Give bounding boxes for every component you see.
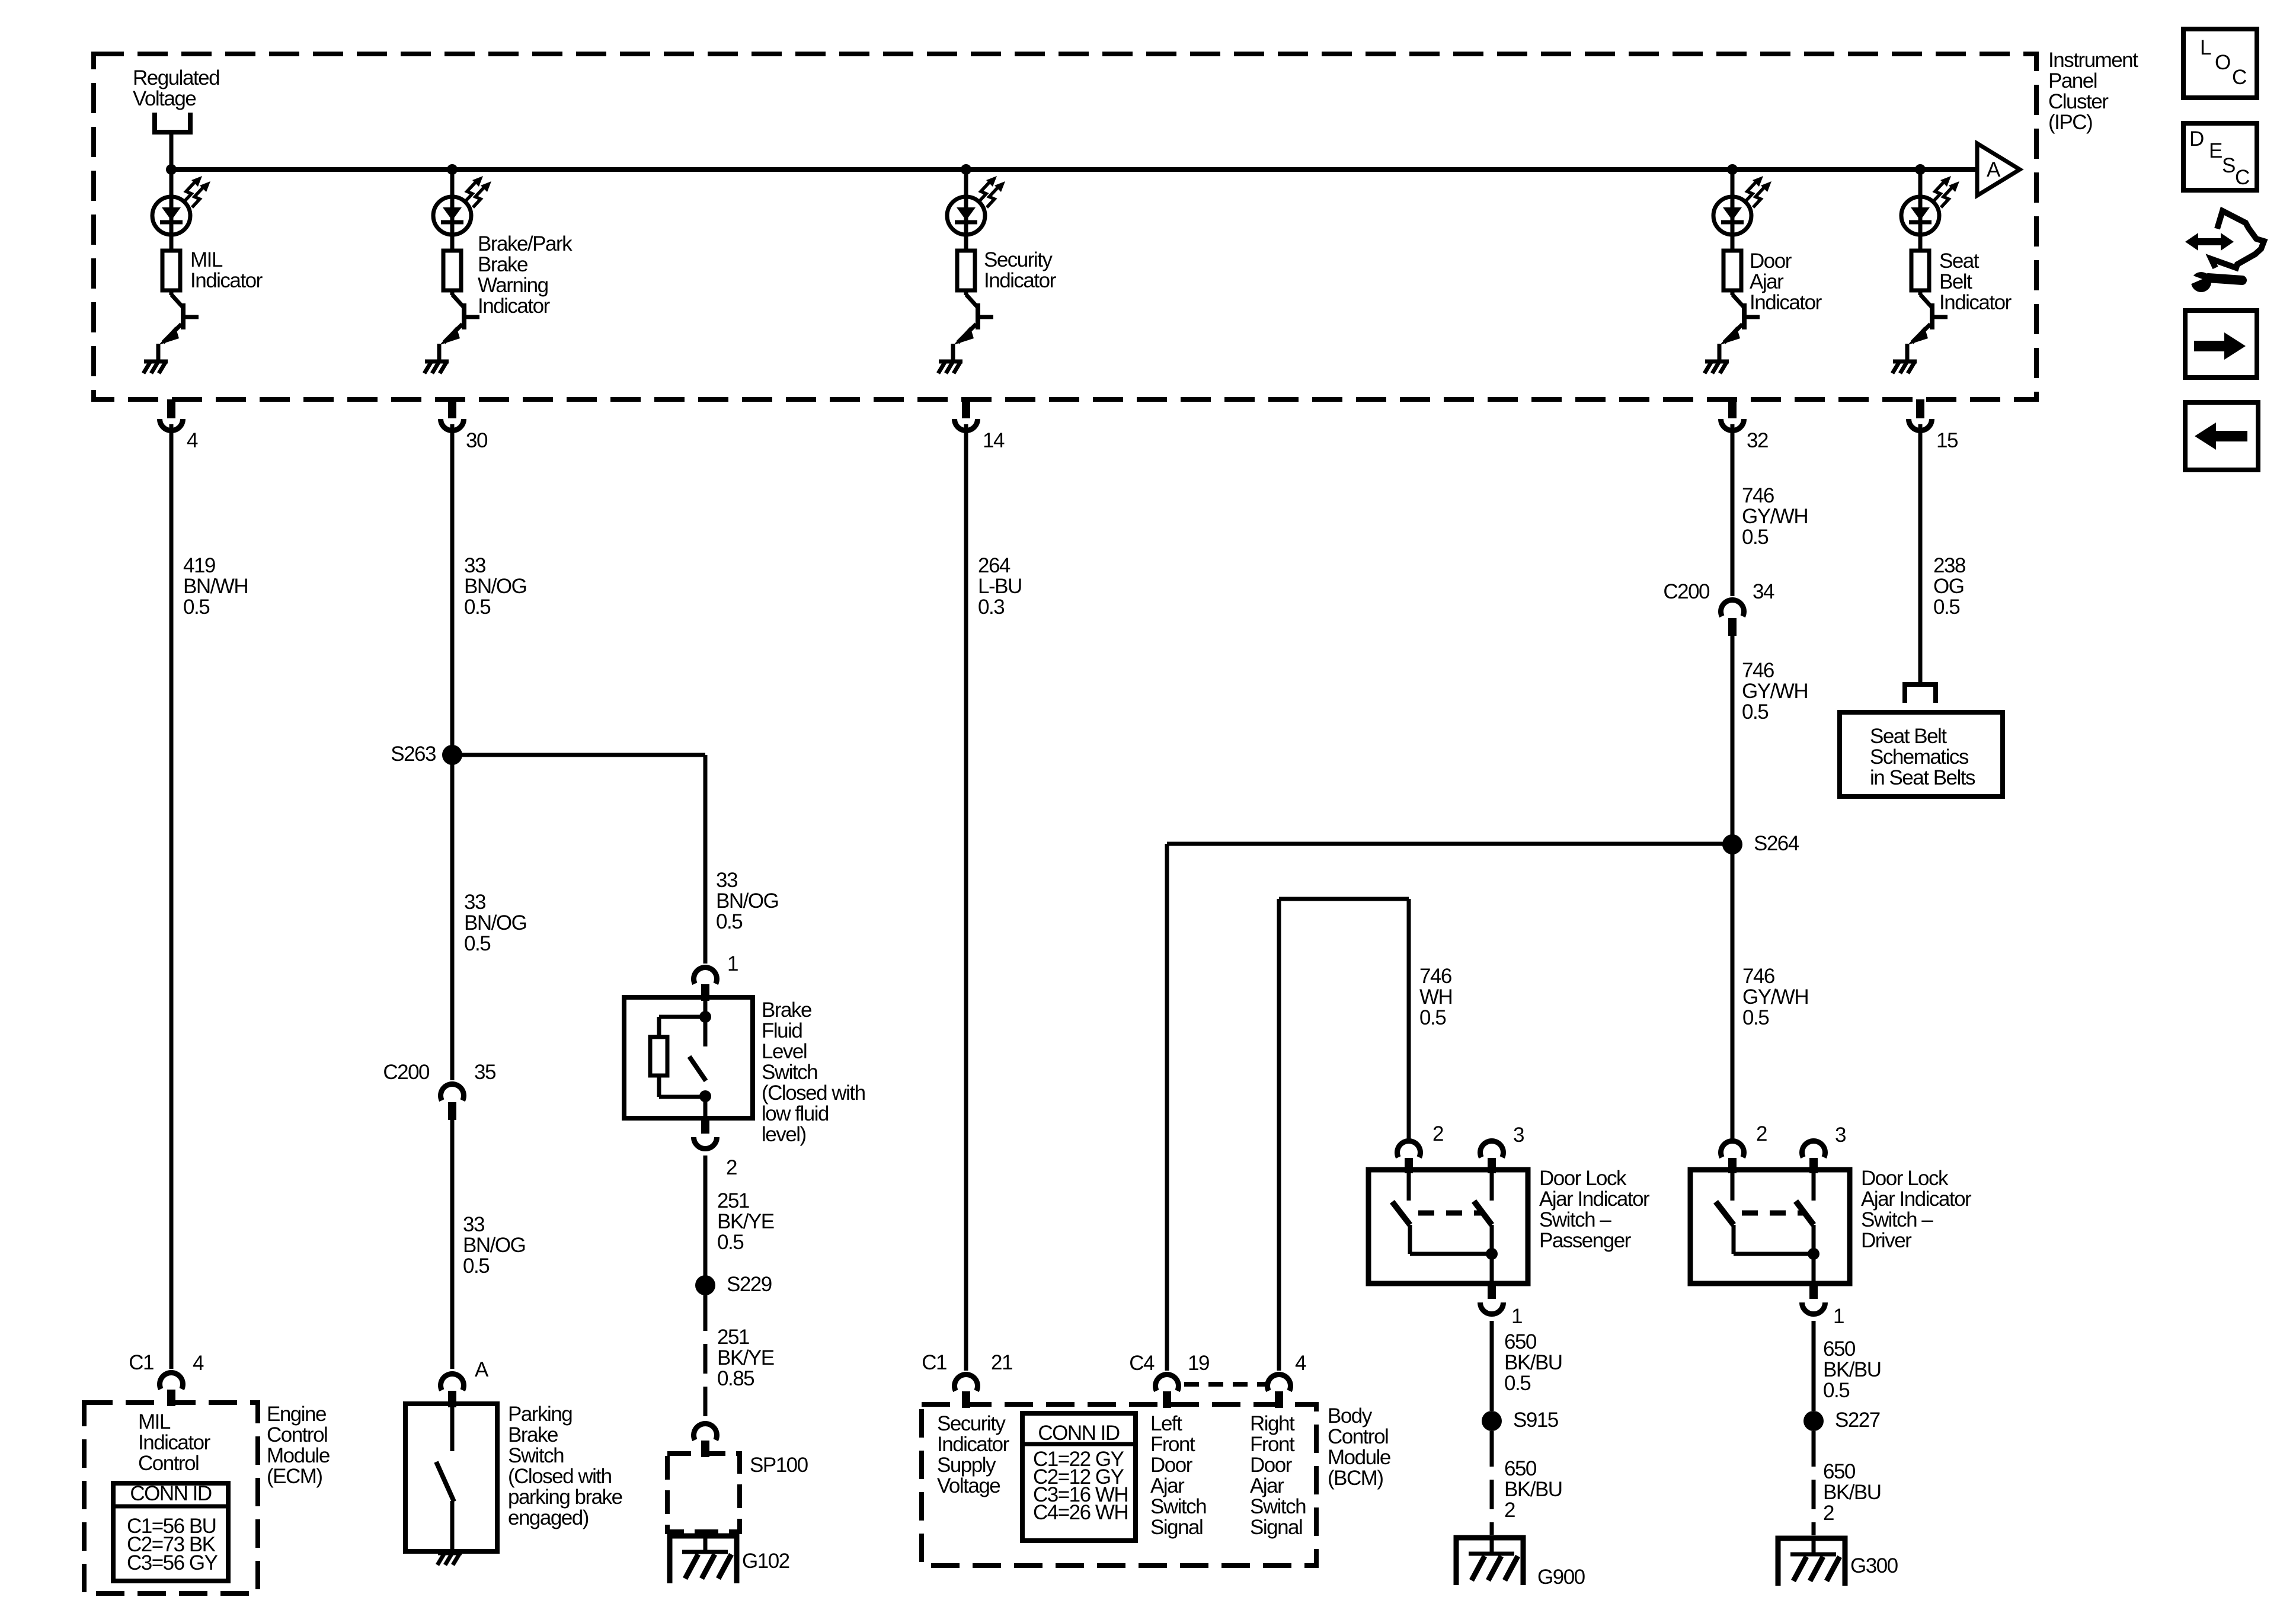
svg-text:0.3: 0.3: [978, 596, 1004, 619]
svg-text:33: 33: [463, 1213, 484, 1236]
svg-text:0.5: 0.5: [464, 596, 490, 619]
svg-text:in Seat Belts: in Seat Belts: [1870, 766, 1975, 789]
svg-text:Indicator: Indicator: [1939, 291, 2012, 314]
svg-text:Control: Control: [138, 1452, 199, 1475]
svg-text:251: 251: [717, 1326, 749, 1349]
svg-text:Ajar: Ajar: [1150, 1474, 1185, 1497]
svg-text:S263: S263: [391, 742, 436, 766]
svg-text:Module: Module: [1328, 1446, 1390, 1469]
svg-text:Signal: Signal: [1250, 1516, 1302, 1539]
svg-text:Schematics: Schematics: [1870, 745, 1969, 769]
svg-text:D: D: [2189, 127, 2204, 151]
svg-text:Switch: Switch: [1150, 1495, 1206, 1518]
svg-text:Ajar Indicator: Ajar Indicator: [1861, 1188, 1972, 1211]
svg-text:0.5: 0.5: [183, 596, 209, 619]
svg-text:650: 650: [1504, 1457, 1537, 1480]
svg-text:engaged): engaged): [508, 1506, 589, 1529]
svg-text:2: 2: [726, 1156, 737, 1179]
svg-text:33: 33: [464, 554, 485, 577]
svg-text:21: 21: [991, 1351, 1012, 1374]
svg-text:Brake: Brake: [762, 998, 811, 1022]
svg-text:Switch: Switch: [1250, 1495, 1306, 1518]
svg-text:C1: C1: [129, 1351, 154, 1374]
svg-text:BK/BU: BK/BU: [1504, 1351, 1562, 1374]
svg-text:G900: G900: [1537, 1566, 1585, 1589]
svg-text:3: 3: [1835, 1124, 1846, 1147]
svg-text:BK/YE: BK/YE: [717, 1210, 774, 1233]
svg-text:Passenger: Passenger: [1539, 1229, 1632, 1252]
svg-text:Ajar: Ajar: [1750, 270, 1784, 293]
svg-text:OG: OG: [1933, 575, 1964, 598]
svg-text:GY/WH: GY/WH: [1742, 505, 1808, 528]
svg-text:Brake: Brake: [508, 1423, 558, 1446]
svg-text:Ajar: Ajar: [1250, 1474, 1284, 1497]
svg-text:14: 14: [983, 429, 1005, 452]
svg-text:Door: Door: [1750, 249, 1792, 273]
svg-text:0.5: 0.5: [717, 1231, 743, 1254]
svg-text:Left: Left: [1150, 1412, 1182, 1435]
svg-text:Front: Front: [1250, 1433, 1295, 1456]
svg-text:E: E: [2209, 139, 2222, 162]
svg-text:C4: C4: [1129, 1352, 1155, 1375]
svg-text:Door: Door: [1250, 1454, 1293, 1477]
svg-text:33: 33: [716, 869, 737, 892]
svg-text:A: A: [475, 1358, 489, 1381]
svg-text:Switch: Switch: [762, 1061, 817, 1084]
svg-text:30: 30: [466, 429, 488, 452]
svg-text:(ECM): (ECM): [267, 1465, 322, 1488]
svg-text:0.5: 0.5: [1742, 1006, 1769, 1029]
svg-text:0.5: 0.5: [464, 932, 490, 955]
svg-text:35: 35: [474, 1061, 495, 1084]
svg-text:746: 746: [1742, 484, 1774, 507]
svg-text:C200: C200: [1663, 580, 1710, 603]
svg-text:Supply: Supply: [937, 1454, 996, 1477]
svg-text:1: 1: [1833, 1305, 1844, 1328]
svg-text:S227: S227: [1835, 1409, 1880, 1432]
svg-text:Indicator: Indicator: [937, 1433, 1010, 1456]
svg-text:Panel: Panel: [2048, 69, 2097, 92]
svg-text:Body: Body: [1328, 1404, 1373, 1427]
svg-text:Engine: Engine: [267, 1403, 326, 1426]
svg-text:Indicator: Indicator: [1750, 291, 1822, 314]
svg-text:33: 33: [464, 891, 485, 914]
svg-text:Switch –: Switch –: [1539, 1208, 1611, 1231]
svg-text:251: 251: [717, 1189, 749, 1212]
svg-text:Front: Front: [1150, 1433, 1195, 1456]
svg-text:CONN ID: CONN ID: [1038, 1422, 1120, 1445]
svg-text:4: 4: [187, 429, 198, 452]
svg-text:0.5: 0.5: [1742, 526, 1768, 549]
svg-text:0.5: 0.5: [1742, 700, 1768, 724]
svg-text:Warning: Warning: [478, 274, 548, 297]
svg-text:Fluid: Fluid: [762, 1019, 802, 1042]
svg-text:Switch –: Switch –: [1861, 1208, 1933, 1231]
svg-text:C1: C1: [922, 1351, 946, 1374]
svg-text:S229: S229: [727, 1273, 772, 1296]
svg-text:BN/OG: BN/OG: [716, 889, 778, 913]
svg-text:2: 2: [1756, 1122, 1767, 1145]
svg-text:34: 34: [1753, 580, 1774, 603]
svg-text:3: 3: [1513, 1124, 1524, 1147]
svg-text:G300: G300: [1850, 1554, 1898, 1577]
svg-text:Door: Door: [1150, 1454, 1193, 1477]
svg-text:parking brake: parking brake: [508, 1486, 622, 1509]
svg-text:Voltage: Voltage: [937, 1474, 1000, 1497]
svg-text:32: 32: [1747, 429, 1768, 452]
svg-text:C4=26 WH: C4=26 WH: [1033, 1501, 1128, 1524]
svg-text:Module: Module: [267, 1444, 330, 1467]
svg-text:A: A: [1987, 158, 2001, 181]
svg-text:C: C: [2232, 66, 2246, 89]
svg-text:4: 4: [1295, 1352, 1306, 1375]
svg-text:Right: Right: [1250, 1412, 1295, 1435]
svg-text:BK/BU: BK/BU: [1504, 1478, 1562, 1501]
svg-text:2: 2: [1432, 1122, 1443, 1145]
svg-text:Instrument: Instrument: [2048, 49, 2138, 72]
svg-text:0.5: 0.5: [1504, 1372, 1530, 1395]
svg-text:15: 15: [1936, 429, 1958, 452]
svg-text:746: 746: [1742, 659, 1774, 682]
svg-text:BN/OG: BN/OG: [463, 1234, 525, 1257]
svg-text:Voltage: Voltage: [133, 87, 196, 110]
svg-text:Door Lock: Door Lock: [1861, 1167, 1949, 1190]
svg-text:419: 419: [183, 554, 215, 577]
svg-text:(Closed with: (Closed with: [508, 1465, 612, 1488]
svg-text:(Closed with: (Closed with: [762, 1081, 865, 1105]
svg-text:SP100: SP100: [750, 1454, 808, 1477]
svg-text:Belt: Belt: [1939, 270, 1972, 293]
svg-text:S: S: [2222, 154, 2235, 177]
svg-text:264: 264: [978, 554, 1011, 577]
svg-text:Security: Security: [937, 1412, 1006, 1435]
svg-text:746: 746: [1419, 965, 1451, 988]
svg-text:Control: Control: [1328, 1425, 1388, 1448]
svg-text:Indicator: Indicator: [190, 269, 263, 292]
svg-text:Switch: Switch: [508, 1444, 564, 1467]
svg-text:L-BU: L-BU: [978, 575, 1022, 598]
svg-text:Security: Security: [984, 248, 1053, 271]
svg-text:level): level): [762, 1123, 806, 1146]
svg-text:S264: S264: [1754, 832, 1799, 855]
svg-text:C: C: [2235, 166, 2249, 189]
svg-text:650: 650: [1504, 1330, 1537, 1353]
svg-text:19: 19: [1188, 1352, 1209, 1375]
svg-text:BK/BU: BK/BU: [1823, 1358, 1881, 1381]
svg-text:C3=56 GY: C3=56 GY: [127, 1551, 218, 1574]
svg-text:Ajar Indicator: Ajar Indicator: [1539, 1188, 1650, 1211]
svg-text:Door Lock: Door Lock: [1539, 1167, 1627, 1190]
svg-text:BK/BU: BK/BU: [1823, 1481, 1881, 1504]
svg-text:0.5: 0.5: [1419, 1006, 1446, 1029]
svg-text:Indicator: Indicator: [138, 1431, 211, 1454]
svg-text:Driver: Driver: [1861, 1229, 1912, 1252]
svg-text:0.5: 0.5: [716, 910, 742, 933]
svg-text:GY/WH: GY/WH: [1742, 985, 1808, 1009]
svg-text:Brake: Brake: [478, 253, 527, 276]
svg-text:MIL: MIL: [190, 248, 223, 271]
svg-text:Indicator: Indicator: [984, 269, 1057, 292]
svg-text:650: 650: [1823, 1337, 1856, 1361]
svg-text:746: 746: [1742, 965, 1774, 988]
svg-text:O: O: [2215, 51, 2230, 74]
svg-text:2: 2: [1823, 1502, 1834, 1525]
svg-text:CONN ID: CONN ID: [130, 1482, 212, 1505]
svg-text:WH: WH: [1419, 985, 1452, 1009]
svg-text:0.5: 0.5: [1823, 1379, 1849, 1402]
svg-text:0.85: 0.85: [717, 1367, 754, 1390]
svg-text:Signal: Signal: [1150, 1516, 1203, 1539]
svg-text:S915: S915: [1513, 1409, 1558, 1432]
svg-text:BN/OG: BN/OG: [464, 911, 526, 934]
svg-text:238: 238: [1933, 554, 1965, 577]
svg-text:Level: Level: [762, 1040, 807, 1063]
svg-text:1: 1: [1511, 1305, 1522, 1328]
svg-text:Control: Control: [267, 1423, 327, 1446]
svg-text:Cluster: Cluster: [2048, 90, 2109, 113]
svg-text:low fluid: low fluid: [762, 1102, 829, 1125]
svg-text:Brake/Park: Brake/Park: [478, 232, 573, 255]
svg-text:0.5: 0.5: [463, 1254, 489, 1278]
svg-text:G102: G102: [742, 1550, 789, 1573]
svg-text:BN/WH: BN/WH: [183, 575, 248, 598]
svg-text:Seat Belt: Seat Belt: [1870, 725, 1947, 748]
svg-text:MIL: MIL: [138, 1410, 171, 1433]
svg-text:650: 650: [1823, 1460, 1856, 1483]
svg-text:BK/YE: BK/YE: [717, 1346, 774, 1369]
svg-text:2: 2: [1504, 1499, 1515, 1522]
svg-text:4: 4: [193, 1352, 204, 1375]
svg-text:(IPC): (IPC): [2048, 111, 2092, 134]
svg-text:(BCM): (BCM): [1328, 1467, 1383, 1490]
svg-text:BN/OG: BN/OG: [464, 575, 526, 598]
svg-text:C200: C200: [383, 1061, 430, 1084]
svg-text:GY/WH: GY/WH: [1742, 680, 1808, 703]
svg-text:Indicator: Indicator: [478, 295, 551, 318]
svg-text:L: L: [2200, 36, 2211, 59]
svg-text:Regulated: Regulated: [133, 66, 219, 89]
svg-text:Seat: Seat: [1939, 249, 1980, 273]
svg-text:Parking: Parking: [508, 1403, 572, 1426]
svg-text:0.5: 0.5: [1933, 596, 1959, 619]
svg-text:1: 1: [727, 952, 738, 975]
